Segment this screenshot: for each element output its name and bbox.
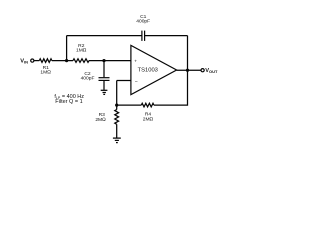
resistor R3 bbox=[95, 105, 118, 138]
resistor R2 bbox=[73, 43, 89, 62]
wire feedback down to output node bbox=[187, 36, 189, 71]
resistor R1 bbox=[39, 59, 52, 76]
capacitor C2 bbox=[81, 61, 110, 90]
svg-text:TS1003: TS1003 bbox=[138, 68, 158, 74]
node VIN terminal bbox=[31, 59, 34, 62]
label VIN bbox=[20, 59, 28, 65]
svg-text:400pF: 400pF bbox=[136, 19, 150, 25]
wire op-amp output bbox=[177, 69, 201, 71]
wire top rail right segment bbox=[145, 35, 188, 37]
svg-text:VOUT: VOUT bbox=[205, 68, 218, 74]
node OUT junction bbox=[186, 69, 189, 72]
op-amp U1 TS1003 bbox=[131, 45, 177, 94]
svg-text:400pF: 400pF bbox=[81, 76, 95, 82]
svg-text:Filter Q = 1: Filter Q = 1 bbox=[55, 99, 82, 105]
label VOUT bbox=[205, 68, 218, 74]
wire op-amp minus input left bbox=[117, 80, 131, 82]
node B junction bbox=[102, 59, 105, 62]
svg-text:1MΩ: 1MΩ bbox=[40, 70, 51, 76]
svg-text:2MΩ: 2MΩ bbox=[143, 116, 154, 122]
svg-text:1MΩ: 1MΩ bbox=[76, 48, 87, 54]
wire R2 to op-amp + input bbox=[89, 60, 131, 62]
svg-text:VIN: VIN bbox=[20, 59, 28, 65]
node A junction bbox=[65, 59, 68, 62]
wire node A up to top rail bbox=[66, 36, 68, 61]
ground below R3 bbox=[113, 138, 121, 143]
ground below C2 bbox=[101, 90, 108, 94]
node VOUT terminal bbox=[201, 69, 204, 72]
svg-text:+: + bbox=[134, 58, 137, 63]
node C junction bbox=[115, 104, 118, 107]
wire minus input down to node C bbox=[116, 81, 118, 106]
wire top rail left segment bbox=[67, 35, 142, 37]
capacitor C1 bbox=[136, 14, 150, 41]
svg-text:2MΩ: 2MΩ bbox=[95, 117, 106, 123]
wire R1 to node A to R2 bbox=[52, 60, 73, 62]
label filter parameters bbox=[54, 94, 84, 105]
svg-text:−: − bbox=[135, 79, 138, 85]
resistor R4 bbox=[141, 103, 154, 122]
wire node C to R4 bbox=[117, 104, 142, 106]
wire R4 to feedback corner bbox=[154, 70, 188, 105]
wire VIN to R1 bbox=[34, 60, 39, 62]
